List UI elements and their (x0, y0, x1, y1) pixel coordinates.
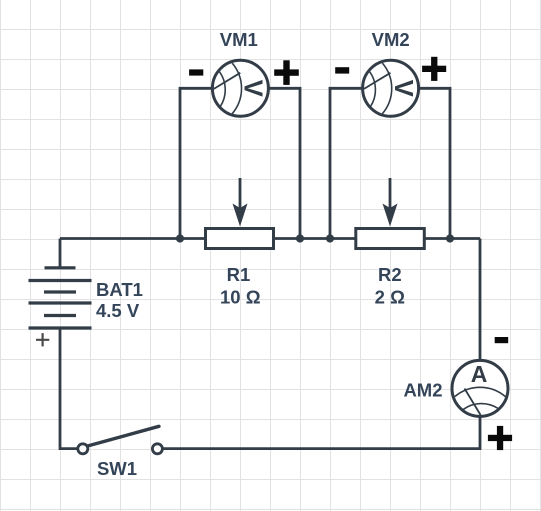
svg-text:BAT1: BAT1 (96, 279, 143, 300)
svg-text:R1: R1 (227, 264, 251, 285)
svg-text:4.5 V: 4.5 V (96, 300, 140, 321)
svg-text:SW1: SW1 (97, 458, 137, 479)
svg-text:VM2: VM2 (372, 29, 410, 50)
svg-text:V: V (239, 80, 267, 97)
svg-text:R2: R2 (378, 264, 402, 285)
svg-text:VM1: VM1 (220, 29, 258, 50)
svg-text:A: A (471, 361, 488, 387)
svg-text:AM2: AM2 (403, 380, 442, 401)
svg-text:V: V (389, 80, 417, 97)
svg-text:2 Ω: 2 Ω (375, 286, 405, 307)
svg-text:10 Ω: 10 Ω (220, 286, 261, 307)
